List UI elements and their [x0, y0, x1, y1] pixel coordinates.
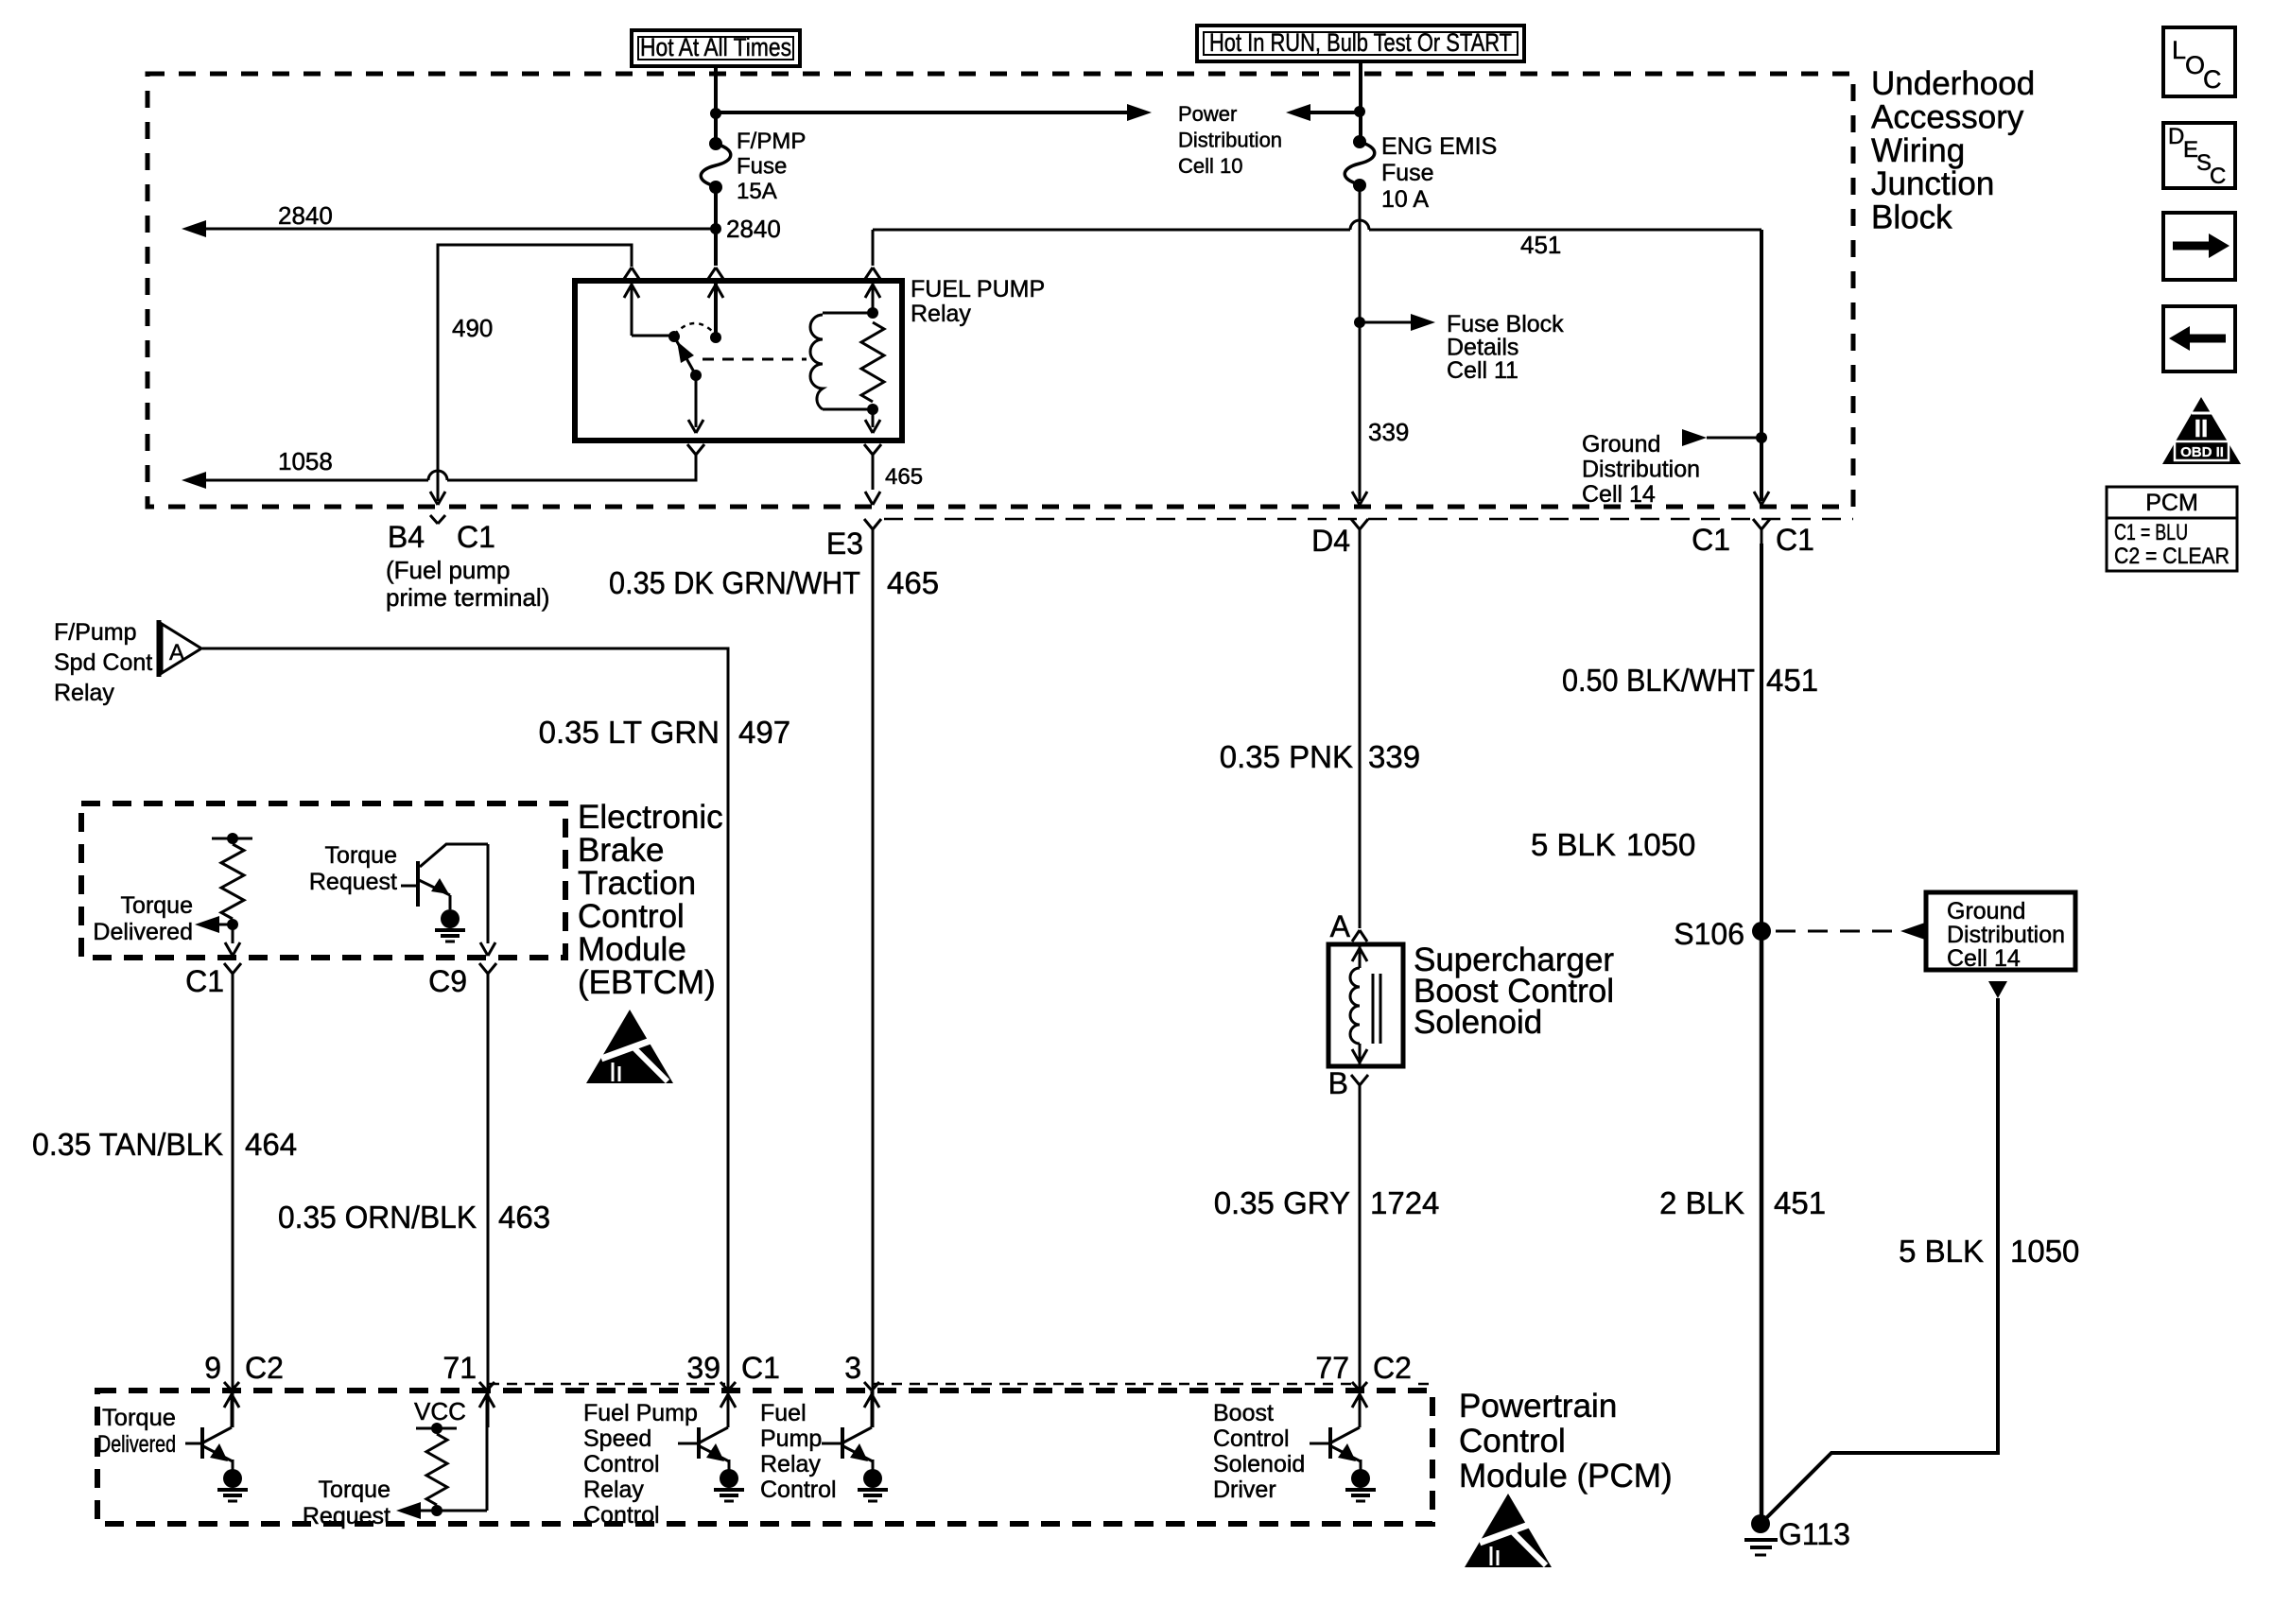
svg-text:Relay: Relay — [54, 680, 114, 706]
svg-text:Relay: Relay — [760, 1451, 821, 1477]
relay switch blade with arrow — [674, 337, 696, 375]
EBTCM torque delivered resistor — [212, 838, 252, 840]
svg-text:Relay: Relay — [583, 1477, 644, 1503]
svg-text:464: 464 — [245, 1127, 297, 1162]
relay switch output wire down arrow — [695, 375, 698, 427]
svg-text:Module: Module — [578, 931, 686, 968]
svg-text:Relay: Relay — [911, 301, 971, 327]
svg-text:77: 77 — [1315, 1351, 1349, 1385]
svg-text:1050: 1050 — [2010, 1234, 2079, 1269]
svg-text:Distribution: Distribution — [1178, 129, 1282, 152]
transistor Fuel Pump Relay Control (pin 3) — [871, 1391, 874, 1427]
svg-text:OBD II: OBD II — [2180, 444, 2224, 460]
svg-text:Electronic: Electronic — [578, 799, 723, 836]
svg-text:Hot At All Times: Hot At All Times — [640, 33, 791, 61]
relay linkage dashed line — [703, 358, 807, 361]
svg-text:Module (PCM): Module (PCM) — [1459, 1458, 1673, 1494]
relay coil — [823, 312, 873, 315]
wire from relay pin1 to circuit 490 corner — [438, 245, 632, 501]
svg-text:465: 465 — [885, 464, 923, 490]
svg-text:Control: Control — [1459, 1423, 1566, 1460]
relay box FUEL PUMP Relay — [575, 281, 902, 441]
svg-text:C1: C1 — [185, 964, 224, 998]
svg-text:Cell 10: Cell 10 — [1178, 154, 1242, 178]
svg-text:0.35 PNK: 0.35 PNK — [1220, 739, 1353, 774]
Underhood Accessory Wiring Junction Block dashed boundary — [147, 74, 1853, 507]
svg-text:ENG EMIS: ENG EMIS — [1381, 133, 1497, 160]
svg-text:C: C — [2210, 164, 2226, 189]
svg-text:Cell 11: Cell 11 — [1447, 357, 1518, 384]
svg-text:II: II — [2195, 414, 2208, 442]
arrow to Fuse Block Details Cell 11 — [1360, 321, 1411, 324]
svg-text:D4: D4 — [1311, 524, 1350, 558]
svg-text:0.35 LT GRN: 0.35 LT GRN — [539, 715, 720, 750]
wire circuit 2840 with left arrow — [182, 220, 206, 237]
wire circuit 465 E3 to PCM pin 3 — [872, 544, 875, 1427]
relay center pin internal wire with up arrow — [714, 283, 718, 337]
wire circuit 451 horizontal (relay coil to ground distribution) with hop over 339 — [873, 229, 1350, 232]
svg-text:Cell 14: Cell 14 — [1582, 481, 1656, 508]
ESD symbol EBTCM — [586, 1010, 673, 1083]
svg-text:9: 9 — [204, 1351, 221, 1385]
svg-text:2 BLK: 2 BLK — [1659, 1185, 1744, 1220]
node ENG EMIS feed — [1354, 106, 1365, 117]
wire 465 relay to E3 — [872, 469, 875, 490]
svg-text:497: 497 — [738, 715, 790, 750]
svg-text:0.35 TAN/BLK: 0.35 TAN/BLK — [32, 1127, 223, 1162]
transistor Torque Delivered driver (pin 9) — [231, 1391, 234, 1427]
svg-text:B4: B4 — [388, 520, 425, 554]
svg-text:0.35 ORN/BLK: 0.35 ORN/BLK — [278, 1200, 477, 1235]
legend box left arrow — [2163, 306, 2235, 371]
junction block exit connectors B4 E3 D4 C1 — [430, 515, 438, 524]
svg-text:A: A — [169, 640, 184, 665]
svg-text:VCC: VCC — [414, 1397, 466, 1425]
node ground distribution tap — [1756, 432, 1767, 443]
svg-text:Control: Control — [760, 1477, 837, 1503]
node Fuse Block Details tap — [1354, 317, 1365, 328]
svg-text:(EBTCM): (EBTCM) — [578, 964, 716, 1001]
transistor Fuel Pump Speed Control Relay Control (pin 39) — [727, 1391, 730, 1427]
svg-text:C1 = BLU: C1 = BLU — [2114, 520, 2188, 545]
svg-text:E3: E3 — [826, 527, 863, 561]
pin 71 wire — [486, 1391, 489, 1511]
svg-text:Pump: Pump — [760, 1425, 822, 1452]
svg-text:C9: C9 — [428, 964, 467, 998]
wire from Hot In RUN box down — [1359, 61, 1362, 142]
PCM dashed module box — [97, 1391, 1432, 1524]
wire circuit 497 from A to PCM pin 39 — [202, 648, 728, 1427]
arrow Ground Distribution Cell 14 (in block) — [1682, 429, 1707, 446]
svg-text:1050: 1050 — [1626, 827, 1695, 862]
svg-text:FUEL PUMP: FUEL PUMP — [911, 276, 1045, 302]
svg-text:5 BLK: 5 BLK — [1899, 1234, 1984, 1269]
svg-text:451: 451 — [1766, 663, 1818, 698]
svg-text:D: D — [2168, 124, 2184, 149]
wire from Hot At All Times into block — [714, 64, 718, 144]
thin dashed continuation line below junction block — [884, 518, 1853, 521]
legend box LOC — [2163, 27, 2235, 96]
relay switch pivot node — [668, 331, 680, 342]
svg-text:339: 339 — [1368, 418, 1409, 446]
wire 339 D4 to solenoid — [1359, 544, 1362, 928]
svg-text:Control: Control — [583, 1502, 660, 1529]
svg-text:Control: Control — [578, 898, 685, 935]
connector C9 — [479, 963, 488, 974]
svg-text:Solenoid: Solenoid — [1213, 1451, 1305, 1477]
svg-text:B: B — [1328, 1066, 1348, 1100]
arrow Torque Delivered — [195, 916, 219, 933]
EBTCM pin C9 wire down arrow — [487, 844, 490, 943]
svg-text:F/Pump: F/Pump — [54, 619, 137, 646]
OBD II triangle symbol — [2162, 397, 2241, 464]
svg-text:A: A — [1330, 909, 1351, 943]
svg-text:C1: C1 — [1776, 523, 1814, 557]
svg-text:451: 451 — [1520, 231, 1561, 259]
svg-text:Wiring: Wiring — [1871, 132, 1965, 169]
svg-text:15A: 15A — [737, 179, 777, 204]
svg-text:Junction: Junction — [1871, 165, 1994, 202]
ground G113 — [1751, 1514, 1770, 1533]
svg-text:Boost: Boost — [1213, 1400, 1274, 1426]
wire 1058 from relay to left arrow with hop over 490 — [447, 469, 696, 480]
svg-text:2840: 2840 — [278, 201, 333, 230]
node 2840 — [710, 223, 721, 234]
svg-text:C: C — [2203, 65, 2222, 94]
svg-text:Control: Control — [1213, 1425, 1290, 1452]
EBTCM pin C1 wire down arrow — [232, 924, 234, 943]
svg-text:0.50 BLK/WHT: 0.50 BLK/WHT — [1562, 663, 1755, 698]
svg-text:Torque: Torque — [325, 842, 397, 869]
svg-text:1058: 1058 — [278, 447, 333, 475]
svg-text:Fuel Pump: Fuel Pump — [583, 1400, 698, 1426]
svg-text:0.35 GRY: 0.35 GRY — [1214, 1185, 1350, 1220]
svg-text:2840: 2840 — [726, 215, 781, 243]
svg-text:Torque: Torque — [121, 892, 193, 919]
relay output connectors below box — [687, 444, 696, 455]
svg-text:Accessory: Accessory — [1871, 98, 2024, 135]
relay coil resistor — [867, 307, 878, 319]
wire circuit 464 C1 to PCM pin 9 — [232, 988, 234, 1427]
svg-text:Spd Cont: Spd Cont — [54, 649, 152, 676]
svg-text:F/PMP: F/PMP — [737, 129, 806, 154]
svg-text:Traction: Traction — [578, 865, 696, 902]
svg-text:C1: C1 — [457, 520, 495, 554]
svg-text:Fuse: Fuse — [1381, 160, 1434, 186]
svg-text:Powertrain: Powertrain — [1459, 1388, 1617, 1425]
svg-text:C2: C2 — [245, 1351, 284, 1385]
svg-text:Distribution: Distribution — [1947, 922, 2065, 948]
svg-text:PCM: PCM — [2145, 490, 2198, 516]
svg-text:Request: Request — [303, 1503, 390, 1529]
relay switch dashed travel arc — [674, 323, 716, 335]
svg-text:L: L — [2172, 36, 2186, 64]
svg-text:C2 = CLEAR: C2 = CLEAR — [2114, 544, 2230, 569]
svg-text:Ground: Ground — [1582, 431, 1660, 458]
svg-text:(Fuel pump: (Fuel pump — [386, 556, 511, 584]
legend box PCM connectors — [2107, 487, 2237, 571]
svg-text:Torque: Torque — [319, 1477, 390, 1503]
svg-text:C1: C1 — [741, 1351, 780, 1385]
svg-text:465: 465 — [887, 565, 939, 600]
wire circuit 339 vertical from fuse to D4 — [1359, 185, 1362, 501]
wire 451 down to C1 — [1760, 230, 1763, 501]
power label box: Hot In RUN, Bulb Test Or START — [1197, 26, 1524, 61]
relay pin1 internal wire with up arrow — [631, 283, 633, 336]
EBTCM dashed module box — [81, 803, 565, 958]
svg-text:Block: Block — [1871, 199, 1952, 236]
svg-text:Delivered: Delivered — [93, 919, 193, 945]
svg-text:Request: Request — [309, 869, 397, 895]
svg-text:339: 339 — [1368, 739, 1420, 774]
dashed link S106 to Ground Distribution — [1776, 930, 1899, 933]
svg-text:Delivered: Delivered — [97, 1431, 176, 1458]
solenoid coil internal — [1359, 946, 1362, 968]
svg-text:Fuel: Fuel — [760, 1400, 807, 1426]
wire circuit 1724 B to PCM pin 77 — [1359, 1099, 1362, 1427]
wire to Power Distribution (right arrow) — [716, 111, 1127, 114]
svg-text:Brake: Brake — [578, 832, 664, 869]
svg-text:Ground: Ground — [1947, 898, 2025, 924]
svg-text:463: 463 — [498, 1200, 550, 1235]
node: F/PMP feed junction — [710, 108, 721, 119]
svg-text:Solenoid: Solenoid — [1414, 1004, 1542, 1041]
svg-text:Speed: Speed — [583, 1425, 651, 1452]
arrow Torque Request (PCM) — [396, 1502, 421, 1519]
svg-text:Power: Power — [1178, 102, 1237, 126]
wire circuit 1050 from Ground Distribution to G113 — [1766, 998, 1998, 1518]
legend box right arrow — [2163, 213, 2235, 280]
svg-text:Control: Control — [583, 1451, 660, 1477]
wire fuse to 2840 node — [714, 187, 718, 229]
wire 2 BLK 451 S106 to G113 — [1760, 931, 1764, 1520]
svg-text:G113: G113 — [1778, 1517, 1850, 1551]
ESD symbol PCM — [1465, 1494, 1552, 1567]
down triangle under Ground Distribution box — [1988, 981, 2007, 998]
legend box DESC — [2163, 123, 2235, 188]
splice S106 — [1752, 922, 1771, 941]
svg-text:Underhood: Underhood — [1871, 65, 2035, 102]
svg-text:5 BLK: 5 BLK — [1531, 827, 1616, 862]
svg-text:Torque: Torque — [102, 1405, 176, 1431]
thin dashed continuation line above PCM — [489, 1383, 725, 1386]
Supercharger Boost Control Solenoid box — [1328, 944, 1403, 1066]
fuse F/PMP 15A — [709, 137, 722, 150]
wire arrow from Power Distribution into ENG EMIS feed — [1286, 104, 1310, 121]
wire 451 C1 to S106 — [1760, 544, 1763, 931]
svg-text:39: 39 — [686, 1351, 720, 1385]
svg-text:C2: C2 — [1373, 1351, 1412, 1385]
svg-text:prime terminal): prime terminal) — [386, 583, 549, 612]
box Ground Distribution Cell 14 — [1926, 892, 2075, 970]
svg-text:451: 451 — [1774, 1185, 1826, 1220]
svg-text:1724: 1724 — [1370, 1185, 1439, 1220]
svg-text:490: 490 — [452, 314, 493, 342]
transistor Boost Control Solenoid Driver (pin 77) — [1359, 1391, 1362, 1427]
svg-text:Fuse: Fuse — [737, 154, 787, 180]
svg-text:C1: C1 — [1692, 523, 1730, 557]
svg-text:S106: S106 — [1674, 917, 1744, 951]
svg-text:3: 3 — [844, 1351, 861, 1385]
power label box: Hot At All Times — [632, 30, 800, 66]
connector C1 EBTCM — [224, 963, 233, 974]
wire circuit 463 C9 to PCM pin 71 — [487, 988, 490, 1427]
svg-text:0.35 DK GRN/WHT: 0.35 DK GRN/WHT — [609, 565, 860, 600]
svg-text:71: 71 — [442, 1351, 477, 1385]
svg-text:Cell 14: Cell 14 — [1947, 945, 2021, 972]
svg-text:10 A: 10 A — [1381, 186, 1429, 213]
relay feed connectors above relay box — [624, 268, 632, 279]
fuse ENG EMIS 10 A — [1353, 135, 1366, 148]
svg-text:Driver: Driver — [1213, 1477, 1276, 1503]
svg-text:O: O — [2185, 51, 2205, 79]
svg-text:Hot In RUN, Bulb Test Or START: Hot In RUN, Bulb Test Or START — [1209, 28, 1512, 57]
svg-text:Distribution: Distribution — [1582, 457, 1700, 483]
